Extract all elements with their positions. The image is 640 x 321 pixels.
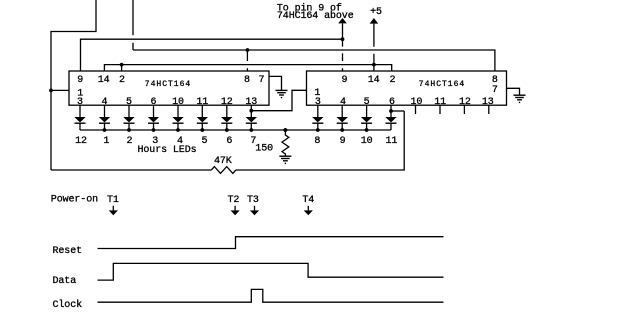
svg-text:6: 6 xyxy=(389,97,395,108)
IC U2 74HCT164 body xyxy=(307,71,507,105)
node Data junction at pin1 branch xyxy=(49,89,53,93)
wire Clock horizontal to U2 pin 8 xyxy=(133,50,495,71)
wire U1 pin 7 to ground xyxy=(269,76,282,90)
wire 47K net left segment xyxy=(51,169,211,171)
wire Reset down to U2 pin 9, crossing Clock and +5 lines xyxy=(342,39,344,46)
LED D7 (hour 6) xyxy=(221,105,232,130)
arrow to pin 9 of 74HC164 above xyxy=(342,23,344,38)
node junction at U1 pin 13 LED xyxy=(249,109,253,113)
svg-text:Reset: Reset xyxy=(53,246,83,257)
LED D11 (hour 10) xyxy=(361,105,372,130)
IC U1 74HCT164 body xyxy=(69,71,269,105)
svg-text:T3: T3 xyxy=(247,195,259,206)
LED D8 (hour 7) xyxy=(246,105,257,130)
LED D1 (hour 12) xyxy=(74,105,85,130)
wire U2 pin 14 stub xyxy=(373,65,375,71)
svg-text:Power-on: Power-on xyxy=(51,195,98,206)
svg-text:12: 12 xyxy=(75,136,87,147)
node rail junctions xyxy=(103,128,369,132)
LED D12 (hour 11) xyxy=(385,105,396,130)
svg-text:2: 2 xyxy=(389,75,395,86)
svg-text:9: 9 xyxy=(340,136,346,147)
svg-text:5: 5 xyxy=(364,97,370,108)
node +5 junction at U1 pin 2 xyxy=(120,63,124,67)
resistor R2 150 vertical xyxy=(282,130,289,156)
wire Data waveform xyxy=(98,263,444,280)
svg-text:11: 11 xyxy=(196,97,208,108)
arrow T4 marker xyxy=(304,206,313,215)
svg-text:11: 11 xyxy=(385,136,397,147)
wire U2 unconnected stubs pins 10-13 xyxy=(416,105,489,114)
svg-text:74HCT164: 74HCT164 xyxy=(419,80,465,89)
svg-text:T1: T1 xyxy=(107,195,119,206)
LED D6 (hour 5) xyxy=(197,105,208,130)
svg-text:14: 14 xyxy=(368,75,380,86)
svg-text:7: 7 xyxy=(259,75,265,86)
ground G2 xyxy=(514,95,526,102)
LED D3 (hour 2) xyxy=(123,105,134,130)
svg-text:10: 10 xyxy=(361,136,373,147)
wire Reset net from U1 pin 9 xyxy=(81,39,343,71)
wire Reset waveform xyxy=(98,237,444,249)
LED D9 (hour 8) xyxy=(312,105,323,130)
svg-text:1: 1 xyxy=(103,136,109,147)
svg-text:11: 11 xyxy=(434,97,446,108)
svg-text:10: 10 xyxy=(410,97,422,108)
arrow T3 marker xyxy=(250,206,259,215)
wire +5 branch to U2 pin 2 xyxy=(374,65,392,71)
svg-text:2: 2 xyxy=(126,136,132,147)
ground G1 xyxy=(276,90,288,97)
svg-text:74HC164 above: 74HC164 above xyxy=(277,10,354,22)
svg-text:9: 9 xyxy=(77,75,83,86)
svg-text:Clock: Clock xyxy=(53,299,83,311)
svg-text:6: 6 xyxy=(151,97,157,108)
wire U1 pin 1 branch xyxy=(51,89,69,91)
svg-text:8: 8 xyxy=(314,136,320,147)
svg-text:3: 3 xyxy=(77,97,83,108)
svg-text:6: 6 xyxy=(226,136,232,147)
LED D5 (hour 4) xyxy=(172,105,183,130)
svg-text:2: 2 xyxy=(119,75,125,86)
node junction rail to R2 xyxy=(284,128,288,132)
svg-text:47K: 47K xyxy=(214,156,232,167)
node Clock junction at U1 pin 8 xyxy=(246,48,250,52)
svg-text:8: 8 xyxy=(244,75,250,86)
svg-text:12: 12 xyxy=(459,97,471,108)
svg-text:+5: +5 xyxy=(370,7,382,18)
svg-text:T2: T2 xyxy=(227,195,239,206)
node +5 junction at U2 pin 14 xyxy=(372,63,376,67)
svg-text:150: 150 xyxy=(255,143,273,154)
svg-text:74HCT164: 74HCT164 xyxy=(145,80,191,89)
arrow +5 supply, stem crossing Clock line xyxy=(373,54,375,65)
svg-text:Hours LEDs: Hours LEDs xyxy=(138,145,197,156)
wire Clock net: top entry, crossing Reset line xyxy=(132,0,134,35)
wire U2 pin 6 branch to 47K xyxy=(391,110,404,112)
svg-text:13: 13 xyxy=(482,97,494,108)
wire U1 pin 8 clock branch crossing +5 line xyxy=(246,50,248,61)
LED D4 (hour 3) xyxy=(148,105,159,130)
svg-text:13: 13 xyxy=(245,97,257,108)
wire U1 pin 2 branch xyxy=(121,65,123,71)
svg-text:5: 5 xyxy=(126,97,132,108)
svg-text:10: 10 xyxy=(172,97,184,108)
arrow T1 marker xyxy=(109,206,118,215)
LED D2 (hour 1) xyxy=(99,105,110,130)
svg-text:5: 5 xyxy=(202,136,208,147)
wire Clock waveform xyxy=(98,289,444,302)
svg-text:7: 7 xyxy=(492,85,498,96)
node junction at U2 pin 6 LED xyxy=(389,109,393,113)
svg-text:14: 14 xyxy=(98,75,110,86)
svg-text:Data: Data xyxy=(53,276,77,287)
resistor R1 47K xyxy=(211,167,236,174)
svg-text:4: 4 xyxy=(340,97,346,108)
wire +5 net from U1 pin 14 across to U2 xyxy=(104,65,374,71)
wire U1 pin 13 output to U2 pin 1 xyxy=(251,90,306,110)
svg-text:4: 4 xyxy=(102,97,108,108)
svg-text:12: 12 xyxy=(221,97,233,108)
svg-text:3: 3 xyxy=(315,97,321,108)
ground G3 xyxy=(279,156,291,163)
svg-text:T4: T4 xyxy=(302,195,314,206)
wire 47K net right segment to U2 pin 6 xyxy=(236,111,404,170)
arrow T2 marker xyxy=(231,206,240,215)
node Reset junction xyxy=(341,37,345,41)
LED D10 (hour 9) xyxy=(337,105,348,130)
wire U2 pin 7 to ground xyxy=(507,88,520,95)
wire LED cathode rail xyxy=(80,129,391,131)
wire Data net: top entry to U1 pin 1 and 47K feedback rail xyxy=(51,0,96,170)
svg-text:9: 9 xyxy=(342,75,348,86)
